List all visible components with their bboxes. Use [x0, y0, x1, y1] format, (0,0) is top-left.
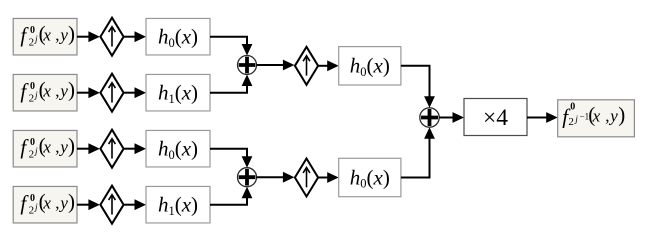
svg-text:2: 2 [29, 92, 34, 104]
input box F4: f0_2j(x,y) [13, 186, 77, 223]
svg-text:,: , [55, 193, 59, 212]
svg-text:h0(x): h0(x) [350, 54, 390, 79]
svg-text:): ) [68, 133, 75, 157]
svg-text:2: 2 [29, 204, 34, 216]
svg-text:h0(x): h0(x) [158, 137, 198, 162]
wire U4 to filter H4 [124, 199, 146, 210]
svg-text:y: y [58, 81, 68, 100]
svg-text:h0(x): h0(x) [350, 165, 390, 190]
svg-text:×4: ×4 [483, 105, 508, 131]
wire U3 to filter H3 [124, 143, 146, 154]
svg-text:h1(x): h1(x) [158, 81, 198, 106]
upsampler U3 (diamond, up-arrow) [100, 130, 123, 168]
upsampler U2 (diamond, up-arrow) [100, 74, 123, 112]
svg-text:): ) [68, 21, 75, 45]
svg-text:y: y [608, 107, 618, 126]
filter H1: h0(x) [146, 18, 210, 55]
wire U2 to filter H2 [124, 87, 146, 98]
svg-text:x: x [42, 137, 51, 156]
svg-text:): ) [68, 189, 75, 213]
wire U5 to filter H5 [319, 60, 339, 71]
svg-text:,: , [55, 25, 59, 44]
svg-text:): ) [618, 103, 625, 127]
wire S3 to gain block [439, 112, 464, 123]
upsampler U6 (diamond, up-arrow) [295, 159, 318, 197]
wire F3 to upsampler U3 [77, 143, 100, 154]
adder S2 (circle-plus, rows 3+4) [238, 168, 257, 187]
wire H6 to adder S3 [401, 127, 435, 177]
svg-text:x: x [42, 193, 51, 212]
adder S3 (final circle-plus) [420, 108, 439, 127]
output box F5: f0_2j-1(x,y) [558, 100, 635, 137]
wire F4 to upsampler U4 [77, 199, 100, 210]
wire H5 to adder S3 [401, 66, 435, 108]
gain block G1: x4 [464, 99, 527, 136]
wire F2 to upsampler U2 [77, 87, 100, 98]
svg-text:x: x [42, 81, 51, 100]
svg-text:0: 0 [570, 102, 575, 113]
wire U6 to filter H6 [319, 172, 339, 183]
svg-text:,: , [605, 107, 609, 126]
wire S1 to upsampler U5 [257, 60, 295, 71]
wire F1 to upsampler U1 [77, 31, 100, 42]
svg-text:y: y [58, 137, 68, 156]
svg-text:h1(x): h1(x) [158, 193, 198, 218]
svg-text:,: , [55, 81, 59, 100]
svg-text:2: 2 [29, 148, 34, 160]
svg-text:x: x [592, 107, 601, 126]
upsampler U5 (diamond, up-arrow) [295, 47, 318, 85]
svg-text:2: 2 [29, 36, 34, 48]
wire H3 to adder [210, 149, 252, 168]
input box F3: f0_2j(x,y) [13, 130, 77, 167]
wire H4 to adder [210, 187, 252, 205]
wire H2 to adder [210, 75, 252, 93]
upsampler U1 (diamond, up-arrow) [100, 18, 123, 56]
input box F1: f0_2j(x,y) [13, 18, 77, 55]
svg-text:x: x [42, 25, 51, 44]
filter H2: h1(x) [146, 74, 210, 111]
upsampler U4 (diamond, up-arrow) [100, 186, 123, 224]
wire U1 to filter H1 [124, 31, 146, 42]
svg-text:h0(x): h0(x) [158, 25, 198, 50]
input box F2: f0_2j(x,y) [13, 74, 77, 111]
svg-text:2: 2 [568, 116, 574, 128]
svg-text:): ) [68, 77, 75, 101]
svg-text:,: , [55, 137, 59, 156]
filter H3: h0(x) [146, 130, 210, 167]
adder S1 (circle-plus, rows 1+2) [238, 56, 257, 75]
svg-text:y: y [58, 193, 68, 212]
filter H6: h0(x) [339, 158, 401, 196]
wire G1 to output box [527, 112, 558, 123]
wire S2 to upsampler U6 [257, 172, 295, 183]
filter H4: h1(x) [146, 186, 210, 223]
svg-text:y: y [58, 25, 68, 44]
filter H5: h0(x) [339, 47, 401, 85]
wire H1 to adder [210, 37, 252, 56]
